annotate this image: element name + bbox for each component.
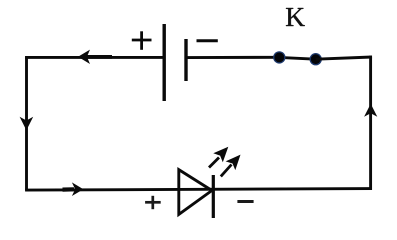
LED light arrow 2 (lower): [221, 155, 241, 177]
current arrow (leftward) on top wire: [78, 50, 112, 64]
battery: negative plate (short): [184, 39, 187, 81]
battery + polarity label: [132, 31, 152, 50]
LED light arrow 1 (upper): [209, 147, 228, 168]
wire: left vertical side: [25, 56, 28, 190]
wire: right vertical side: [369, 56, 372, 190]
label K (switch name): [286, 8, 305, 26]
switch K: left contact dot: [273, 51, 285, 63]
switch K: contact link bar: [279, 57, 315, 59]
LED + polarity label: [145, 196, 161, 209]
LED D: cathode bar: [212, 175, 215, 218]
LED − polarity label: [237, 200, 253, 203]
battery − polarity label: [197, 39, 218, 42]
wire: top segment, left corner to battery positive plate: [25, 56, 164, 59]
current arrow (downward) on left wire: [20, 117, 34, 131]
current arrow (upward) on right wire: [364, 104, 377, 117]
wire: battery negative plate to switch: [186, 56, 280, 59]
wire: bottom side: [25, 189, 372, 191]
battery: positive plate (long): [162, 24, 165, 101]
current arrow (rightward) on bottom wire: [63, 182, 84, 196]
wire: switch to top-right corner: [316, 57, 372, 59]
LED D: anode triangle: [179, 170, 212, 215]
switch K: right contact dot: [310, 53, 322, 65]
